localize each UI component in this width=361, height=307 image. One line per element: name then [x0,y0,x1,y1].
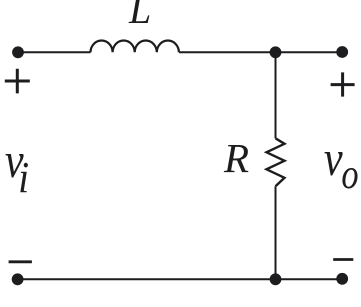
svg-text:v: v [324,131,343,186]
minus sign output polarity [333,258,353,261]
wire node A down to resistor [275,52,277,138]
plus sign input polarity [5,69,30,94]
svg-text:o: o [341,152,358,198]
node dot input - terminal [12,273,24,285]
plus sign output polarity [331,72,355,96]
node dot output - terminal [336,273,348,285]
svg-text:R: R [223,135,249,181]
svg-text:L: L [128,0,151,32]
svg-text:i: i [18,154,29,202]
resistor R [267,138,285,186]
bottom wire (input - terminal to output - terminal through node B) [18,278,343,280]
inductor L [91,40,179,52]
node A junction dot [270,46,282,58]
wire node A to output + terminal [276,51,343,53]
node dot output + terminal [336,46,348,58]
wire resistor down to node B [275,186,277,279]
wire top-left (input + terminal to inductor) [18,51,91,53]
wire top-right (inductor to node A) [179,51,276,53]
minus sign input polarity [9,260,32,263]
node B junction dot [270,273,282,285]
node dot input + terminal [12,46,24,58]
